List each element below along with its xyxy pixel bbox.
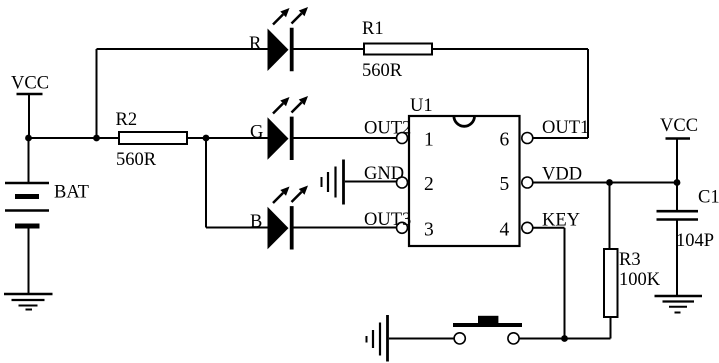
ground (C1): [655, 296, 703, 313]
svg-text:1: 1: [424, 130, 434, 151]
resistor R1: [362, 19, 432, 81]
svg-text:U1: U1: [410, 96, 433, 116]
svg-text:R3: R3: [619, 250, 641, 270]
svg-text:R1: R1: [362, 19, 384, 39]
pin 5: [500, 174, 533, 195]
wire: [676, 221, 678, 296]
pin 3: [397, 219, 434, 240]
wire: [187, 137, 268, 139]
wire: [205, 138, 207, 228]
resistor R3: [604, 249, 661, 317]
svg-text:560R: 560R: [116, 150, 157, 170]
wire: [533, 137, 588, 139]
LED R: [249, 7, 308, 71]
svg-text:5: 5: [500, 174, 510, 195]
node junction: [674, 179, 681, 186]
wire: [609, 183, 611, 250]
wire: [28, 95, 30, 138]
wire: [294, 137, 397, 139]
svg-text:100K: 100K: [619, 270, 661, 290]
svg-text:4: 4: [500, 219, 510, 240]
capacitor C1: [657, 188, 719, 252]
svg-text:VCC: VCC: [11, 73, 49, 93]
node junction: [561, 335, 568, 342]
svg-text:G: G: [250, 123, 263, 143]
wire: [345, 181, 396, 183]
battery BAT: [5, 183, 89, 226]
svg-text:2: 2: [424, 174, 434, 195]
svg-text:OUT2: OUT2: [364, 119, 411, 139]
svg-text:C1: C1: [698, 188, 719, 208]
wire: [564, 228, 566, 339]
LED G: [250, 96, 308, 160]
wire: [389, 338, 454, 340]
ground (GND pin, rotated): [322, 160, 344, 205]
svg-text:OUT3: OUT3: [364, 210, 411, 230]
svg-text:104P: 104P: [676, 231, 714, 251]
wire: [96, 49, 98, 138]
wire: [676, 140, 678, 183]
svg-text:VCC: VCC: [660, 116, 698, 136]
op-amp U1 (IC body): [409, 96, 520, 246]
wire: [28, 226, 30, 293]
wire: [432, 48, 588, 50]
ground (key, rotated): [367, 315, 388, 362]
wire: [28, 138, 30, 182]
wire: [587, 49, 589, 138]
wire: [533, 227, 565, 229]
svg-text:B: B: [250, 212, 262, 232]
wire: [294, 48, 365, 50]
node junction: [606, 179, 613, 186]
ground (battery): [4, 294, 53, 310]
wire: [29, 137, 120, 139]
switch S1 (push button): [453, 316, 522, 344]
wire: [206, 227, 268, 229]
svg-text:BAT: BAT: [54, 183, 89, 203]
pin 4: [500, 219, 533, 240]
power symbol VCC (left): [11, 73, 49, 94]
svg-text:3: 3: [424, 219, 434, 240]
svg-text:6: 6: [500, 130, 510, 151]
wire: [533, 182, 677, 184]
node junction: [203, 135, 210, 142]
svg-text:560R: 560R: [362, 61, 403, 81]
wire: [97, 48, 268, 50]
pin 1: [397, 130, 434, 151]
wire: [676, 183, 678, 211]
pin 6: [500, 130, 533, 151]
svg-text:R: R: [249, 34, 262, 54]
pin 2: [397, 174, 434, 195]
power symbol VCC (right): [660, 116, 698, 139]
svg-text:R2: R2: [116, 110, 138, 130]
resistor R2: [116, 110, 188, 170]
node junction: [93, 135, 100, 142]
svg-text:OUT1: OUT1: [542, 118, 589, 138]
node junction: [25, 135, 32, 142]
wire: [519, 338, 611, 340]
LED B: [250, 186, 308, 250]
wire: [294, 227, 397, 229]
svg-text:GND: GND: [364, 164, 404, 184]
wire: [610, 317, 612, 339]
